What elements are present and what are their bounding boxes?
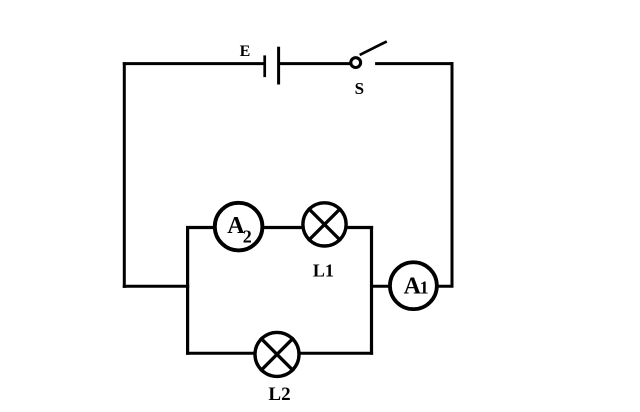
lamp L2 circle — [255, 332, 299, 376]
lamp L1 cross stroke 1 — [308, 208, 341, 241]
wire right outer vertical — [451, 62, 454, 286]
switch S lever — [360, 41, 387, 55]
lamp L2 cross stroke 2 — [260, 338, 294, 372]
wire top-left segment (battery left lead) — [123, 62, 264, 65]
lamp L1 circle — [303, 203, 346, 246]
svg-text:E: E — [240, 43, 251, 60]
wire left outer vertical — [123, 62, 126, 288]
wire mid-left horizontal — [123, 285, 189, 288]
svg-text:L2: L2 — [268, 384, 290, 405]
wire inner-right vertical — [370, 226, 373, 355]
wire top branch (through A2 and L1) — [186, 226, 373, 229]
svg-text:2: 2 — [243, 226, 252, 246]
switch S pivot circle — [351, 58, 361, 68]
wire battery-to-switch segment — [280, 62, 351, 65]
wire bottom branch (through L2) — [186, 352, 373, 355]
svg-text:S: S — [355, 79, 364, 98]
svg-text:L1: L1 — [313, 261, 334, 281]
wire inner-left vertical — [186, 226, 189, 355]
battery E long plate (positive) — [277, 47, 280, 85]
lamp L1 cross stroke 2 — [308, 208, 341, 241]
lamp L2 cross stroke 1 — [260, 338, 294, 372]
wire switch-to-corner segment — [375, 62, 453, 65]
wire mid-right horizontal (to A1) — [370, 285, 454, 288]
svg-text:1: 1 — [420, 278, 429, 298]
battery E short plate (negative) — [263, 55, 266, 77]
ammeter A2 circle — [215, 203, 263, 251]
ammeter A1 circle — [390, 262, 437, 309]
